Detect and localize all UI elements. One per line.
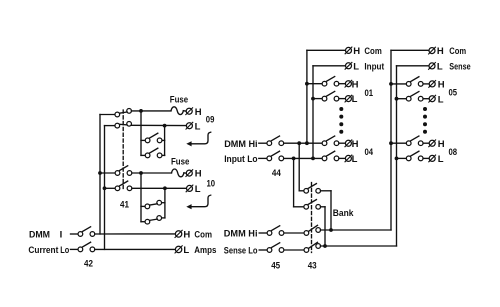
- wire 45a to 43a: [284, 232, 304, 234]
- terminal ch10 H: [186, 170, 192, 176]
- switch ch04 L: [322, 156, 327, 161]
- wire Sense Lo lead: [259, 249, 267, 251]
- node ch09 H junction: [139, 109, 143, 113]
- svg-text:01: 01: [365, 88, 374, 99]
- svg-text:Sense Lo: Sense Lo: [224, 246, 258, 257]
- terminal ch08 L: [429, 155, 435, 161]
- svg-text:08: 08: [449, 147, 458, 158]
- switch box lower 2: [145, 219, 150, 224]
- switch relay 43 a: [304, 231, 309, 236]
- node ch10 H junction: [139, 171, 143, 175]
- svg-text:L: L: [437, 62, 443, 73]
- switch ch05 H: [406, 82, 411, 87]
- left bank rail Lo: [104, 126, 106, 250]
- box relay group upper: left rail: [140, 111, 142, 155]
- svg-text:H: H: [195, 169, 202, 180]
- wire DMM Hi lead 45: [259, 232, 267, 234]
- svg-text:41: 41: [120, 200, 130, 211]
- switch box upper 1: [145, 138, 150, 143]
- box upper stubs: [141, 139, 145, 141]
- wire DMM I to H Com: [95, 233, 176, 235]
- switch ch09 H: [115, 112, 120, 117]
- switch relay 44 b: [267, 156, 272, 161]
- switch ch01 L: [322, 96, 327, 101]
- left bank rail Hi: [99, 115, 101, 235]
- svg-text:Fuse: Fuse: [170, 95, 188, 106]
- svg-text:43: 43: [308, 260, 317, 271]
- svg-text:Current: Current: [28, 245, 59, 256]
- arrow ch09: [191, 132, 211, 144]
- svg-text:04: 04: [365, 147, 374, 158]
- wire DMM I lead: [71, 233, 79, 235]
- wire ch09 H out: [131, 110, 171, 112]
- wire 45b to 43b: [284, 249, 304, 251]
- ellipsis right: [423, 107, 427, 111]
- wire ch05 L: [397, 98, 407, 100]
- wire 43a out / bottom bus H: [320, 229, 391, 231]
- wire ch04 L: [284, 157, 323, 159]
- switch ch09 L: [115, 123, 120, 128]
- terminal ch05 H: [429, 81, 435, 87]
- switch relay 42 b: [78, 247, 83, 252]
- wire H Com right: [391, 49, 429, 51]
- gang dashed line relay 41 group: [122, 110, 124, 191]
- svg-text:10: 10: [207, 178, 216, 189]
- svg-text:09: 09: [206, 114, 215, 125]
- box relay group lower: left rail: [140, 173, 142, 222]
- terminal H Com right: [429, 48, 435, 54]
- svg-text:H: H: [438, 80, 445, 91]
- node rail Hi ch10: [98, 171, 102, 175]
- terminal L Amps: [175, 246, 181, 252]
- svg-text:L: L: [352, 94, 358, 105]
- svg-text:05: 05: [449, 88, 458, 99]
- switch relay 44 a: [267, 141, 272, 146]
- wire channel 09 H in: [100, 114, 115, 116]
- svg-text:Com: Com: [364, 46, 381, 57]
- svg-text:Input Lo: Input Lo: [224, 154, 258, 165]
- wire DMM Hi lead: [259, 142, 267, 144]
- wire ch08 H: [391, 142, 406, 144]
- svg-text:Fuse: Fuse: [171, 156, 189, 167]
- wire ch10 L out: [132, 187, 187, 189]
- svg-text:DMM Hi: DMM Hi: [224, 229, 258, 240]
- fuse ch09: [171, 107, 183, 115]
- switch box lower 1: [145, 204, 150, 209]
- svg-text:Com: Com: [449, 46, 466, 57]
- terminal ch01 H: [345, 81, 351, 87]
- node ch09 L junction: [163, 124, 167, 128]
- switch ch10 H: [115, 171, 120, 176]
- terminal L Input: [346, 63, 352, 69]
- svg-text:H: H: [195, 107, 202, 118]
- wire 43b out / bottom bus L: [320, 245, 396, 247]
- terminal ch04 L: [345, 155, 351, 161]
- switch ch10 L: [115, 186, 120, 191]
- terminal ch05 L: [429, 96, 435, 102]
- box upper right rail: [164, 126, 166, 156]
- switch ch08 H: [406, 141, 411, 146]
- wire channel 10 L in: [105, 187, 116, 189]
- svg-text:Com: Com: [194, 229, 212, 240]
- switch ch05 L: [406, 96, 411, 101]
- svg-text:L: L: [183, 245, 189, 256]
- wire ch08 L: [397, 157, 407, 159]
- svg-text:Lo: Lo: [60, 245, 69, 256]
- terminal ch08 H: [429, 140, 435, 146]
- fuse ch10: [172, 169, 184, 177]
- wire ch04 H: [284, 142, 323, 144]
- wire bank Hi out: [321, 190, 332, 192]
- wire ch01 H: [307, 83, 322, 85]
- right rail Lo: [396, 66, 398, 246]
- svg-text:H: H: [438, 139, 445, 150]
- switch relay 45 a: [267, 231, 272, 236]
- svg-text:L: L: [195, 184, 201, 195]
- svg-text:L: L: [438, 94, 444, 105]
- terminal ch04 H: [345, 140, 351, 146]
- wire ch01 L: [313, 98, 322, 100]
- terminal H Com middle: [346, 47, 352, 53]
- wire Current Lo lead: [71, 248, 79, 250]
- switch relay 42 a: [78, 232, 83, 237]
- wire fuse to terminal: [183, 110, 186, 113]
- switch bank Hi: [299, 190, 304, 192]
- wire fuse2 to terminal: [184, 172, 186, 174]
- wire L Input: [313, 65, 345, 67]
- wire H Com middle: [307, 49, 345, 51]
- arrow ch10: [191, 195, 211, 207]
- svg-text:I: I: [60, 229, 63, 240]
- svg-text:Amps: Amps: [194, 245, 216, 256]
- wire channel 10 H in: [100, 172, 115, 174]
- wire channel 09 L in: [105, 125, 116, 127]
- middle rail Lo (L Input): [312, 66, 314, 159]
- wire ch09 L out: [131, 124, 186, 126]
- wire ch05 H: [391, 83, 406, 85]
- wire bank Lo out: [321, 206, 326, 208]
- right rail Hi: [390, 50, 392, 230]
- svg-text:DMM Hi: DMM Hi: [224, 139, 257, 150]
- wire Input Lo drop to bank switch: [293, 158, 295, 206]
- terminal ch10 L: [187, 185, 193, 191]
- svg-text:45: 45: [271, 260, 281, 271]
- svg-text:L: L: [438, 154, 444, 165]
- svg-text:H: H: [437, 46, 444, 57]
- switch relay 45 b: [267, 248, 272, 253]
- svg-text:42: 42: [84, 258, 93, 269]
- node rail Lo ch10: [103, 186, 107, 190]
- wire Input Lo lead: [259, 157, 267, 159]
- switch ch01 H: [322, 81, 327, 86]
- svg-text:L: L: [195, 121, 201, 132]
- terminal L Sense: [429, 63, 435, 69]
- box lower right rail: [164, 188, 166, 218]
- box lower stubs: [141, 205, 145, 207]
- terminal ch01 L: [345, 96, 351, 102]
- terminal ch09 H: [186, 108, 192, 114]
- svg-text:H: H: [183, 229, 190, 240]
- gang dashed line bank/43: [311, 183, 313, 253]
- switch ch08 L: [406, 156, 411, 161]
- svg-text:H: H: [352, 79, 359, 90]
- svg-text:L: L: [352, 154, 358, 165]
- svg-text:H: H: [352, 139, 359, 150]
- svg-text:L: L: [353, 61, 359, 72]
- switch ch04 H: [322, 141, 327, 146]
- svg-text:H: H: [353, 46, 360, 57]
- svg-text:Input: Input: [364, 61, 385, 72]
- svg-text:Bank: Bank: [333, 208, 354, 219]
- switch box upper 2: [145, 153, 150, 158]
- switch bank Lo: [294, 206, 304, 208]
- svg-text:DMM: DMM: [29, 229, 50, 240]
- terminal H Com left: [175, 231, 181, 237]
- node ch10 L junction: [163, 186, 167, 190]
- wire L Sense: [397, 65, 429, 67]
- terminal ch09 L: [186, 123, 192, 129]
- wire DMM Hi drop to bank switch: [298, 143, 300, 191]
- svg-text:Sense: Sense: [449, 62, 470, 73]
- wire ch10 H out: [132, 172, 172, 174]
- wire Current Lo to L Amps: [95, 248, 176, 250]
- switch relay 43 b: [304, 248, 309, 253]
- middle rail Hi (H Com): [306, 50, 308, 143]
- svg-text:44: 44: [272, 168, 282, 179]
- ellipsis middle: [339, 107, 343, 111]
